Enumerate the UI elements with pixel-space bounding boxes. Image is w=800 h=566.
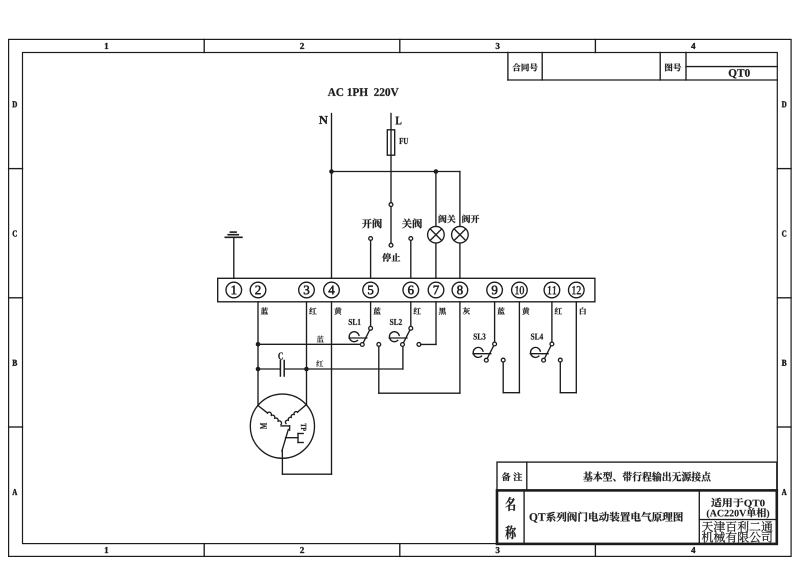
wire drop to lamp HL1 xyxy=(435,172,437,227)
title block: drawing number cell 图号 xyxy=(665,63,681,71)
limit switch SL1 xyxy=(349,326,373,346)
terminal 2 xyxy=(250,282,266,298)
wire lamp HL2 to terminal 8 xyxy=(459,243,461,278)
lamp HL1 label 阀关 xyxy=(439,215,456,223)
ground symbol xyxy=(225,232,242,237)
terminal 10 xyxy=(512,282,528,298)
lamp HL2 label 阀开 xyxy=(462,215,479,223)
terminal 5 xyxy=(363,282,379,298)
terminal 9 xyxy=(487,282,503,298)
wire colour label 蓝 at terminal 2 xyxy=(261,307,268,314)
lamp HL1 阀关 (valve-closed indicator) xyxy=(428,226,445,243)
drawing title QT系列阀门电动装置电气原理图 xyxy=(530,512,683,523)
limit switch SL3 xyxy=(473,342,497,362)
junction t2/red xyxy=(256,367,261,372)
wire terminal 5 to SL1 xyxy=(370,302,372,327)
junction above lamp HL1 xyxy=(434,169,439,174)
junction t2/blue xyxy=(256,342,261,347)
name cell 名称 xyxy=(497,490,777,544)
wire colour label 黄 at terminal 4 xyxy=(334,307,341,314)
motor M (single phase) xyxy=(250,394,314,458)
applicability 适用于QT0 (AC220V单相) xyxy=(707,498,769,519)
wire colour label 黑 at terminal 7 xyxy=(439,307,446,314)
junction on N line xyxy=(329,169,334,174)
limit switch SL3 label xyxy=(474,334,486,340)
SL3 output contact to terminal 10 xyxy=(501,302,519,393)
remarks row 备注 xyxy=(497,462,777,490)
motor label M xyxy=(260,423,266,429)
wire terminal 9 to SL3 xyxy=(494,302,496,342)
stop button label 停止 xyxy=(382,253,400,262)
SL2 output contact to terminal 7 xyxy=(417,302,436,347)
limit switch SL4 xyxy=(530,342,554,362)
close-valve button 关阀 xyxy=(409,237,413,279)
SL4 output contact to terminal 12 xyxy=(558,302,576,393)
fuse FU xyxy=(387,130,394,155)
company name 天津百利二通机械有限公司 xyxy=(702,521,773,543)
thermal protector TP inside motor xyxy=(281,426,303,458)
terminal 7 xyxy=(428,282,444,298)
open-valve button label 开阀 xyxy=(362,219,382,229)
wire colour label 黄 at terminal 10 xyxy=(522,307,529,314)
capacitor C xyxy=(280,361,284,377)
wire colour label 蓝 at terminal 5 xyxy=(373,307,380,314)
wire red label 红 xyxy=(316,360,323,367)
wire colour label 红 at terminal 3 xyxy=(309,307,316,314)
node N label xyxy=(319,116,328,124)
fuse FU label xyxy=(399,138,408,144)
wire terminal 6 to SL2 xyxy=(410,302,412,327)
node L label xyxy=(396,117,402,125)
terminal strip XT xyxy=(218,278,595,302)
thermal protector label TP xyxy=(301,423,306,430)
terminal 6 xyxy=(403,282,419,298)
wire blue label 蓝 xyxy=(317,336,324,343)
wire colour label 红 at terminal 6 xyxy=(414,307,421,314)
terminal 4 xyxy=(324,282,340,298)
wire motor bottom run xyxy=(282,458,331,474)
title block: contract number cell 合同号 xyxy=(508,53,777,81)
lamp HL2 阀开 (valve-open indicator) xyxy=(452,226,469,243)
heading AC 1PH 220V xyxy=(328,88,399,96)
wire colour label 灰 at terminal 8 xyxy=(463,307,470,314)
limit switch SL2 xyxy=(389,326,412,346)
wire terminal 2 down to motor xyxy=(257,302,259,406)
terminal 3 xyxy=(299,282,315,298)
wire red to SL2 xyxy=(285,346,403,369)
stop button 停止 (NC contact) xyxy=(389,203,393,247)
limit switch SL2 label xyxy=(390,319,402,325)
drawing number value QT0 xyxy=(729,69,750,78)
wire bus from N to lamps xyxy=(332,172,460,227)
wire terminal 4 down xyxy=(331,302,333,474)
wire lamp HL1 to terminal 7 xyxy=(435,243,437,278)
SL1 output contact to terminal 8 xyxy=(377,302,460,393)
open-valve button 开阀 xyxy=(369,237,373,279)
wire L from fuse to stop button xyxy=(390,155,392,203)
terminal 8 xyxy=(452,282,468,298)
wire terminal 11 to SL4 xyxy=(551,302,553,342)
limit switch SL4 label xyxy=(531,334,543,340)
wire ground to terminal 1 xyxy=(233,237,235,278)
wire N vertical xyxy=(331,114,333,279)
junction t3/red xyxy=(304,367,309,372)
wire L vertical upper xyxy=(390,114,392,130)
close-valve button label 关阀 xyxy=(402,219,422,229)
wire colour label 红 at terminal 11 xyxy=(555,307,562,314)
wire blue to SL1 xyxy=(258,343,361,345)
wire colour label 蓝 at terminal 9 xyxy=(497,307,504,314)
wire red left segment xyxy=(258,368,279,370)
terminal 12 xyxy=(569,282,585,298)
capacitor C label xyxy=(278,352,283,359)
terminal 11 xyxy=(544,282,560,298)
wire terminal 3 down to motor xyxy=(306,302,308,405)
wire colour label 白 at terminal 12 xyxy=(580,307,586,314)
terminal 1 xyxy=(226,282,242,298)
remarks text 基本型、带行程输出无源接点 xyxy=(583,472,710,482)
limit switch SL1 label xyxy=(349,319,361,325)
